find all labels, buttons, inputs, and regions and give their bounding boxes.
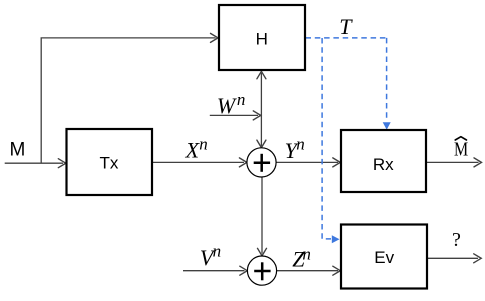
- svg-text:n: n: [237, 90, 246, 109]
- svg-text:Tx: Tx: [100, 154, 119, 173]
- svg-text:H: H: [256, 29, 268, 48]
- svg-text:n: n: [302, 245, 311, 264]
- svg-text:n: n: [213, 242, 222, 261]
- svg-text:Rx: Rx: [373, 155, 394, 174]
- svg-text:?: ?: [452, 229, 461, 251]
- svg-text:M: M: [454, 138, 468, 160]
- svg-text:M: M: [10, 139, 26, 160]
- svg-text:Ev: Ev: [374, 248, 394, 267]
- svg-text:T: T: [339, 14, 353, 39]
- svg-text:W: W: [217, 93, 237, 118]
- svg-text:n: n: [296, 135, 305, 154]
- svg-text:X: X: [185, 137, 201, 162]
- svg-text:n: n: [199, 135, 208, 154]
